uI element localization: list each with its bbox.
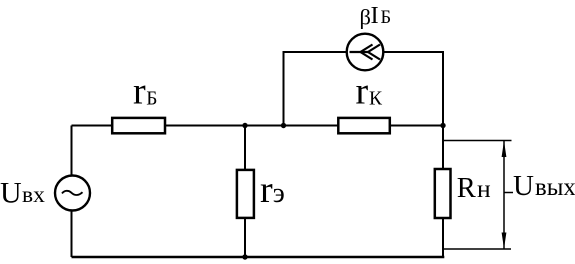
junction node on bus (right, R_н / r_К / source) (440, 123, 445, 128)
svg-text:U: U (513, 170, 534, 202)
svg-text:r: r (260, 169, 273, 211)
svg-text:К: К (369, 89, 383, 110)
svg-text:э: э (273, 178, 285, 209)
resistor r_Б (box) (112, 118, 165, 133)
junction node on bus (current source left leg) (281, 123, 286, 128)
voltage source U_вх (circle with sine) (55, 176, 90, 211)
svg-text:r: r (356, 71, 369, 113)
wire: emitter branch vertical (r_Э) (244, 126, 246, 258)
current source βI_Б (circle with double chevron) (347, 34, 384, 71)
svg-text:Б: Б (381, 8, 392, 28)
svg-text:Б: Б (146, 89, 157, 110)
svg-text:R: R (457, 173, 476, 204)
svg-text:β: β (360, 5, 371, 30)
wire: load branch vertical (R_н) (442, 126, 444, 258)
junction node on bus (r_Э top) (242, 123, 247, 128)
svg-text:н: н (477, 174, 491, 203)
wire: left vertical branch through source Uвх (71, 126, 73, 258)
resistor r_К (box) (338, 118, 390, 133)
wire: current-source loop (up, across, down) (284, 52, 444, 126)
svg-text:вх: вх (22, 182, 45, 208)
resistor R_н (box) (435, 169, 451, 218)
sine symbol inside source (62, 191, 83, 195)
junction node bottom (r_Э bottom) (242, 254, 247, 259)
svg-text:r: r (133, 71, 146, 113)
resistor r_Э (box) (237, 170, 254, 218)
svg-text:I: I (371, 2, 379, 29)
wire: bottom horizontal bus (72, 256, 445, 258)
wire: top horizontal bus from left corner to right node (72, 125, 444, 127)
svg-text:U: U (0, 176, 22, 209)
chevron arrow inside current source (350, 51, 369, 53)
U_вых measurement ticks and arrow (443, 140, 512, 142)
svg-text:вых: вых (535, 174, 575, 201)
